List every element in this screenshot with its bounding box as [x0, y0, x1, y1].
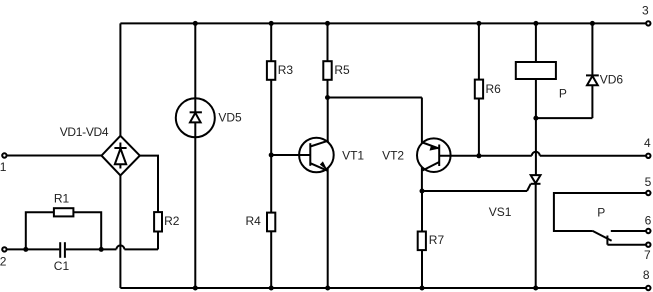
svg-text:R6: R6 — [486, 82, 502, 96]
svg-text:R7: R7 — [429, 233, 445, 247]
svg-text:3: 3 — [642, 3, 649, 17]
svg-text:VD1-VD4: VD1-VD4 — [60, 125, 109, 139]
svg-text:4: 4 — [644, 136, 651, 150]
svg-text:1: 1 — [0, 160, 7, 174]
svg-text:R4: R4 — [246, 214, 262, 228]
svg-text:8: 8 — [643, 268, 650, 282]
svg-text:2: 2 — [0, 255, 7, 269]
svg-text:P: P — [597, 206, 605, 220]
svg-text:VD5: VD5 — [218, 110, 242, 124]
svg-text:R5: R5 — [334, 63, 350, 77]
svg-text:6: 6 — [645, 213, 652, 227]
svg-text:VD6: VD6 — [600, 73, 624, 87]
svg-text:P: P — [559, 87, 567, 101]
svg-text:C1: C1 — [54, 259, 70, 273]
svg-text:5: 5 — [645, 175, 652, 189]
svg-text:VS1: VS1 — [489, 205, 512, 219]
svg-text:R3: R3 — [278, 63, 294, 77]
svg-text:7: 7 — [644, 248, 651, 262]
svg-text:R1: R1 — [54, 191, 70, 205]
svg-text:VT1: VT1 — [342, 148, 364, 162]
svg-text:VT2: VT2 — [382, 148, 404, 162]
svg-text:R2: R2 — [164, 214, 180, 228]
